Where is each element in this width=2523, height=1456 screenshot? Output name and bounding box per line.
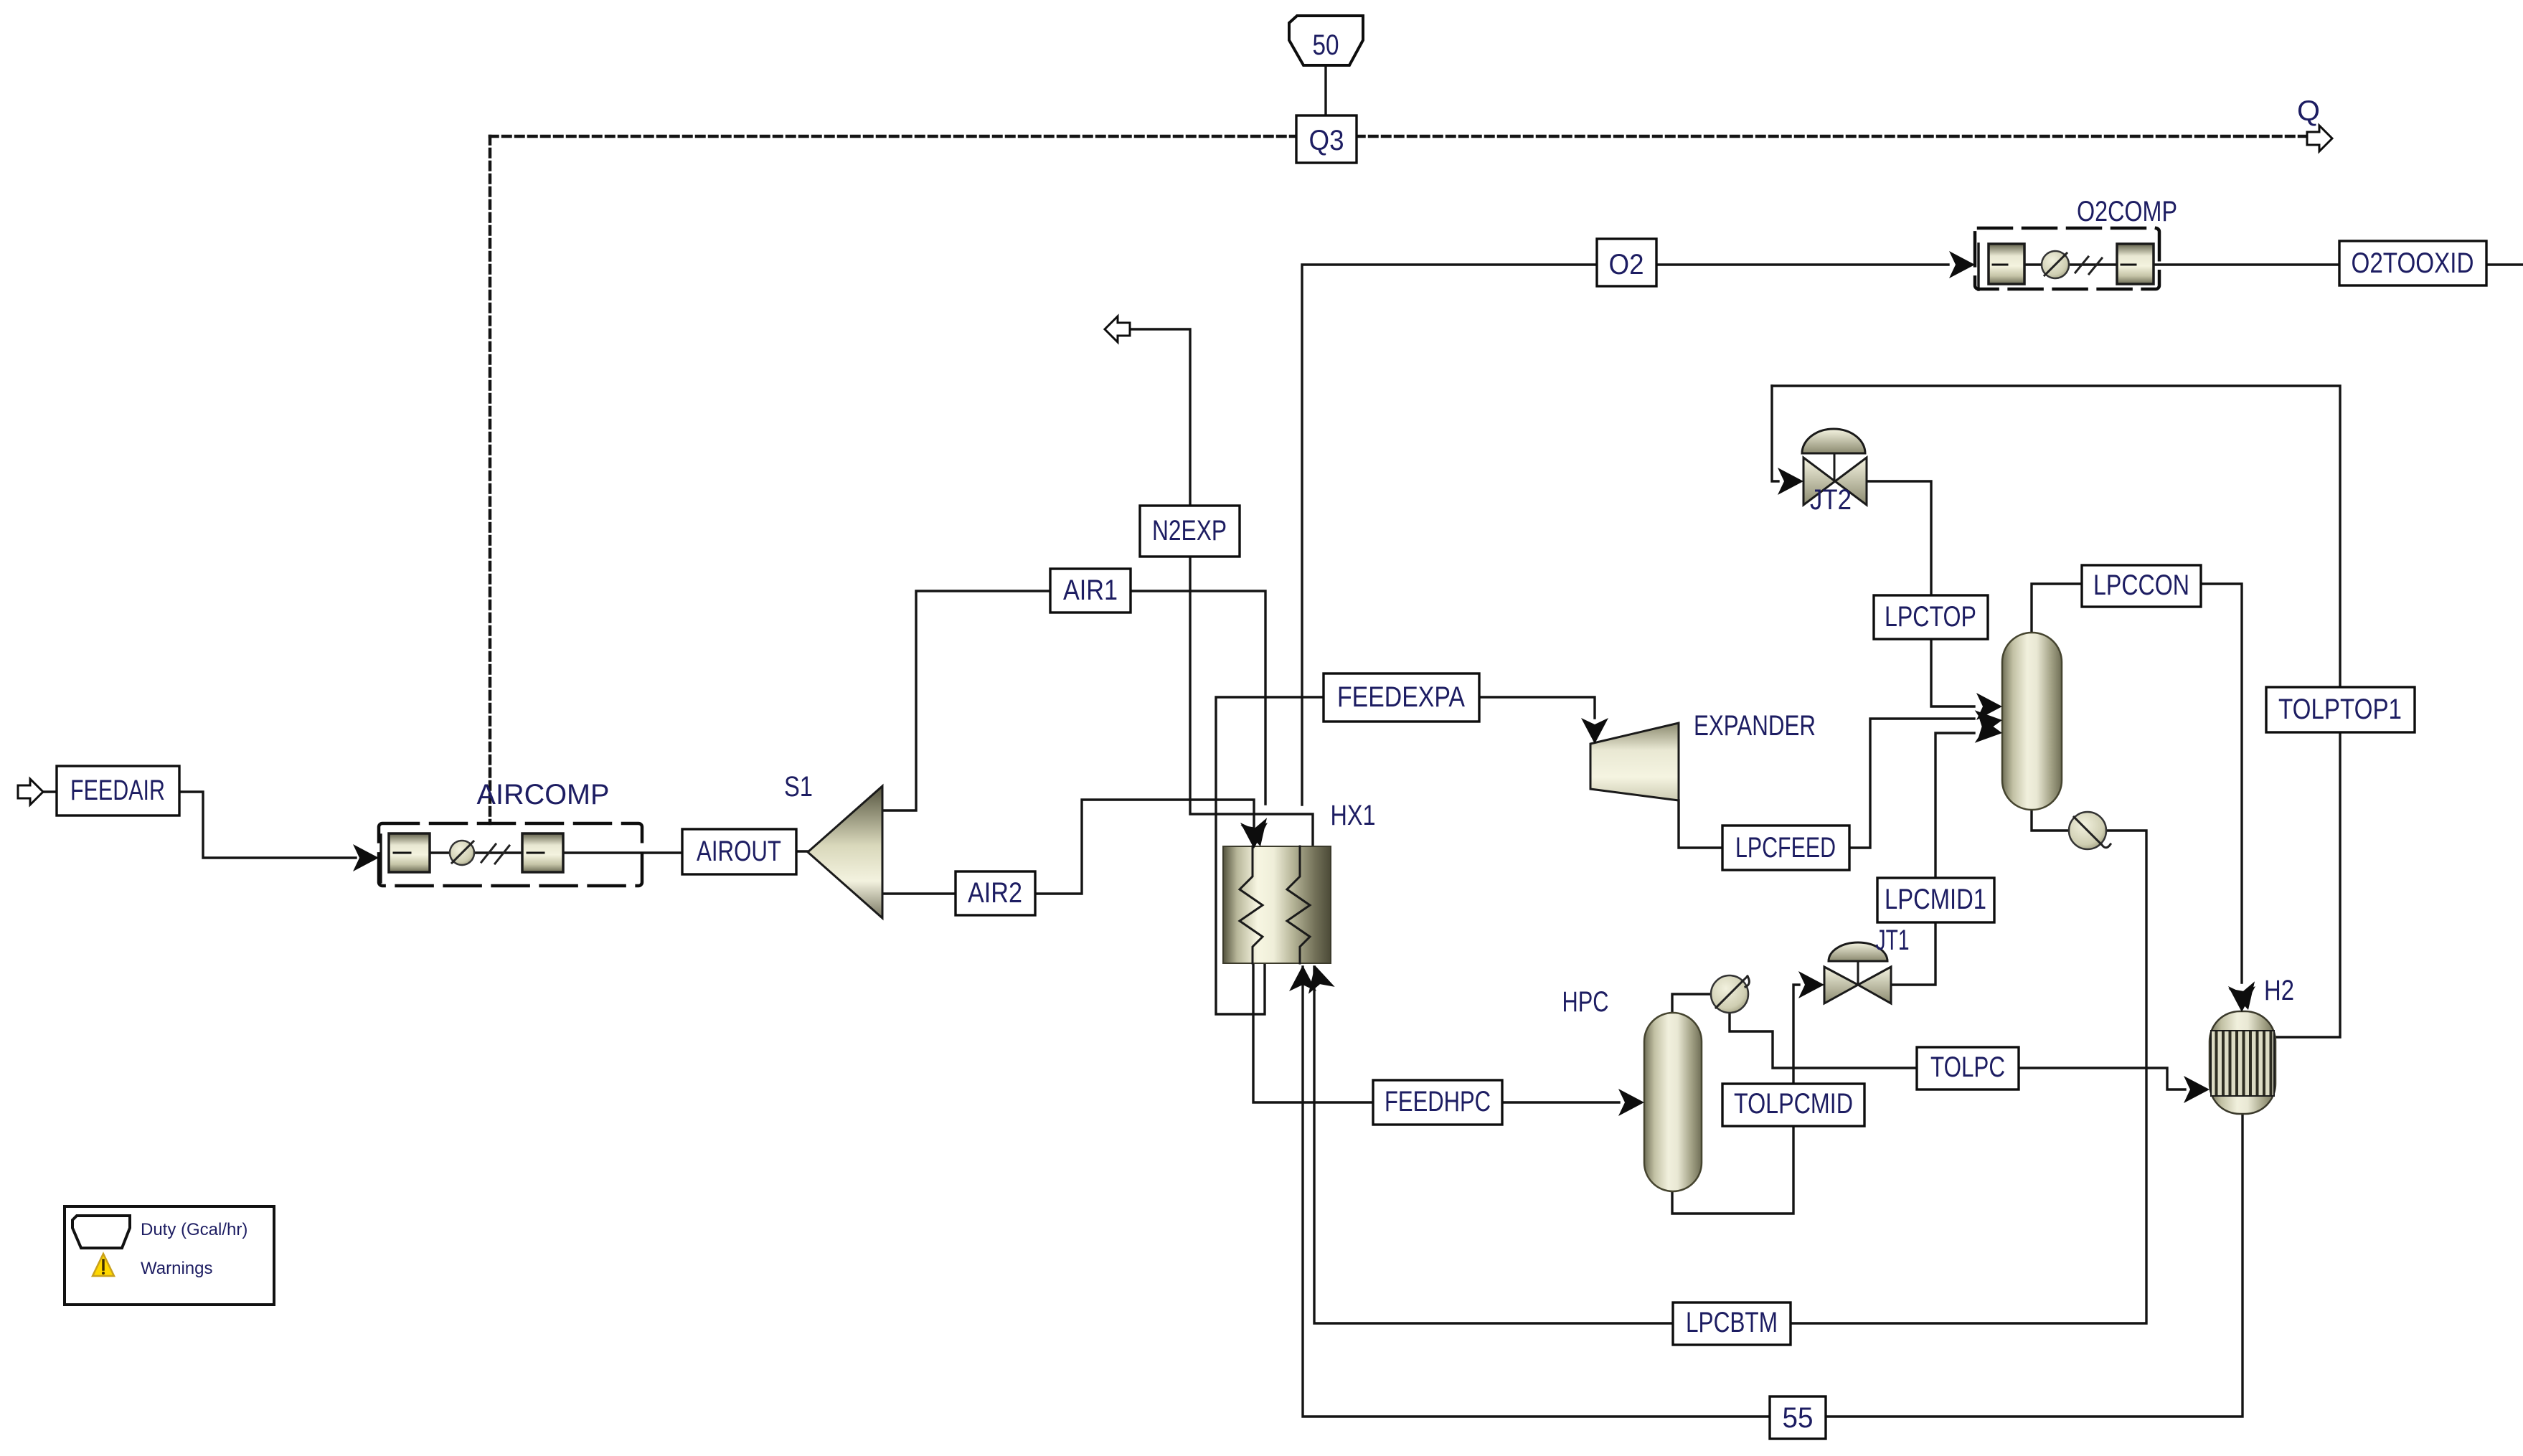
wire HX1 to FEEDHPC: [1253, 965, 1373, 1102]
svg-text:Q3: Q3: [1309, 125, 1344, 156]
node O2 box: [1597, 239, 1656, 286]
wire reboiler to LPCBTM return: [1314, 831, 2146, 1323]
svg-text:O2COMP: O2COMP: [2077, 196, 2177, 227]
legend box: [65, 1206, 274, 1305]
svg-text:N2EXP: N2EXP: [1152, 515, 1227, 547]
svg-text:O2TOOXID: O2TOOXID: [2352, 247, 2474, 279]
svg-text:50: 50: [1313, 29, 1339, 61]
node FEEDAIR box: [57, 766, 179, 816]
svg-text:S1: S1: [784, 771, 813, 803]
splitter S1: [808, 786, 882, 918]
feed arrow FEEDAIR: [18, 779, 43, 805]
wire 50 to Q3: [1324, 65, 1326, 115]
wire LPCCON to H2 top: [2201, 584, 2242, 983]
wire O2COMP interstage: [2024, 263, 2117, 265]
svg-text:LPCBTM: LPCBTM: [1686, 1307, 1778, 1338]
node LPCTOP box: [1874, 595, 1988, 639]
node AIR2 box: [956, 871, 1035, 915]
heat duty symbol 50: [1289, 16, 1363, 65]
svg-text:Warnings: Warnings: [141, 1259, 212, 1278]
node Q3 box: [1296, 115, 1357, 163]
svg-text:FEEDEXPA: FEEDEXPA: [1337, 681, 1465, 713]
svg-text:EXPANDER: EXPANDER: [1694, 710, 1816, 742]
svg-text:LPCTOP: LPCTOP: [1885, 601, 1976, 633]
svg-text:O2: O2: [1609, 249, 1644, 280]
svg-text:TOLPTOP1: TOLPTOP1: [2278, 694, 2402, 725]
wire AIR1 to HX1 downcomer: [1131, 591, 1265, 804]
wire LPC bottoms to reboiler: [2032, 810, 2069, 831]
wire O2 to O2COMP: [1656, 263, 1948, 265]
wire FEEDEXPA from HX1 cold loop: [1216, 697, 1324, 1014]
wire AIR2 to HX1 hot inlet: [1035, 800, 1254, 894]
valve JT2: [1778, 429, 1867, 505]
node TOLPTOP1 box: [2266, 687, 2415, 732]
svg-text:AIR2: AIR2: [968, 877, 1022, 909]
node LPCFEED box: [1722, 826, 1849, 870]
valve JT1: [1798, 942, 1891, 1003]
svg-text:JT1: JT1: [1876, 925, 1910, 956]
svg-text:FEEDHPC: FEEDHPC: [1385, 1086, 1491, 1117]
column HPC: [1618, 975, 1749, 1191]
svg-text:AIR1: AIR1: [1063, 575, 1118, 606]
product arrow Q: [2307, 126, 2332, 151]
node AIR1 box: [1050, 569, 1131, 613]
wire O2COMP to O2TOOXID: [2154, 263, 2339, 265]
wire JT1 to LPCMID1 to LPC: [1891, 733, 1974, 985]
wire FEEDAIR inlet: [42, 790, 57, 793]
wire FEEDHPC to HPC: [1502, 1101, 1619, 1103]
wire AIROUT to S1: [796, 850, 808, 852]
wire O2TOOXID outlet: [2486, 263, 2523, 265]
svg-text:HX1: HX1: [1331, 800, 1376, 831]
svg-text:JT2: JT2: [1810, 484, 1852, 516]
svg-text:AIROUT: AIROUT: [697, 836, 781, 867]
wire LPCFEED to LPC feed nozzle: [1849, 719, 1974, 848]
wire EXPANDER to LPCFEED: [1679, 800, 1722, 848]
wire TOLPTOP1 loop from H2: [1772, 386, 2340, 1037]
wire JT2 inlet from TOLPTOP1 header: [1772, 386, 1778, 481]
node N2EXP box: [1140, 506, 1240, 557]
compressor O2COMP: [1949, 228, 2159, 289]
wire O2COMP suction tick: [1977, 244, 1979, 290]
wire heat stream Q3 horizontal right to Q: [1357, 135, 2307, 138]
wire heat stream Q3 horizontal left: [490, 135, 1296, 138]
svg-text:LPCMID1: LPCMID1: [1885, 884, 1986, 915]
wire TOLPC to H2 side: [2019, 1068, 2185, 1089]
wire N2EXP product line: [1132, 329, 1313, 845]
heat exchanger H2: [2184, 981, 2276, 1114]
wire HPC bottoms to TOLPCMID to JT1: [1672, 985, 1799, 1214]
wire S1 to AIR1 riser: [882, 591, 1050, 810]
svg-text:HPC: HPC: [1562, 986, 1609, 1018]
wire S1 to AIR2: [882, 892, 956, 894]
wire AIRCOMP interstage: [430, 851, 522, 854]
expander EXPANDER: [1590, 723, 1679, 800]
node AIROUT box: [682, 829, 796, 874]
wire LPC top to LPCCON: [2032, 584, 2082, 633]
wire O2 riser from HX1: [1302, 265, 1597, 805]
wire H2 bottom to 55 return: [1303, 967, 2243, 1417]
node LPCMID1 box: [1877, 878, 1994, 922]
svg-text:LPCFEED: LPCFEED: [1735, 832, 1836, 864]
wire HPC top to condenser circle: [1672, 994, 1711, 1013]
svg-text:55: 55: [1783, 1402, 1814, 1434]
node LPCCON box: [2082, 565, 2201, 607]
wire FEEDEXPA to EXPANDER: [1479, 697, 1595, 718]
column LPC: [1975, 633, 2111, 849]
wire JT2 to LPCTOP to LPC: [1867, 481, 1974, 706]
svg-text:TOLPC: TOLPC: [1930, 1051, 2005, 1083]
wire AIRCOMP suction tick: [379, 835, 382, 882]
node FEEDEXPA box: [1324, 673, 1479, 722]
wire condenser to TOLPC: [1730, 1013, 1917, 1068]
heat exchanger HX1: [1223, 818, 1335, 993]
svg-text:TOLPCMID: TOLPCMID: [1734, 1088, 1853, 1120]
node 55 box: [1770, 1396, 1826, 1439]
svg-text:Duty (Gcal/hr): Duty (Gcal/hr): [141, 1220, 247, 1239]
product arrow N2EXP: [1105, 316, 1130, 342]
node TOLPC box: [1917, 1047, 2019, 1089]
svg-text:AIRCOMP: AIRCOMP: [477, 779, 610, 810]
wire heat stream Q3 vertical to AIRCOMP: [489, 136, 492, 823]
wire FEEDAIR to AIRCOMP: [179, 792, 356, 858]
svg-text:FEEDAIR: FEEDAIR: [70, 775, 165, 806]
svg-text:H2: H2: [2264, 975, 2294, 1006]
wire AIRCOMP to AIROUT: [563, 851, 682, 854]
svg-text:LPCCON: LPCCON: [2093, 569, 2189, 601]
node LPCBTM box: [1673, 1303, 1791, 1345]
compressor AIRCOMP: [353, 823, 642, 886]
node O2TOOXID box: [2339, 241, 2486, 285]
svg-text:Q: Q: [2297, 95, 2320, 127]
node TOLPCMID box: [1722, 1084, 1864, 1126]
node FEEDHPC box: [1373, 1080, 1502, 1125]
